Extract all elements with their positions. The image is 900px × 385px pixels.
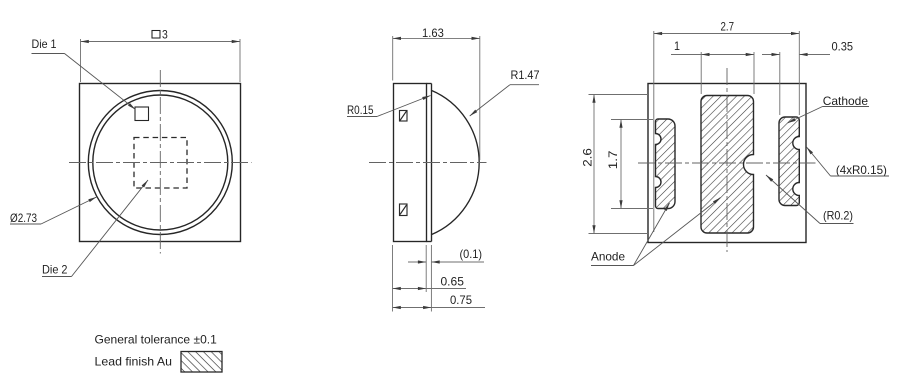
svg-text:0.35: 0.35 bbox=[832, 40, 854, 54]
svg-text:2.7: 2.7 bbox=[721, 20, 735, 34]
svg-text:2.6: 2.6 bbox=[581, 148, 595, 167]
svg-text:(R0.2): (R0.2) bbox=[823, 209, 853, 223]
svg-text:1.7: 1.7 bbox=[606, 150, 620, 169]
svg-text:Cathode: Cathode bbox=[823, 94, 869, 108]
svg-text:Die 2: Die 2 bbox=[42, 263, 68, 277]
svg-text:General tolerance ±0.1: General tolerance ±0.1 bbox=[95, 333, 218, 347]
svg-text:0.65: 0.65 bbox=[441, 275, 465, 289]
svg-text:1.63: 1.63 bbox=[422, 26, 444, 40]
svg-text:Die 1: Die 1 bbox=[32, 37, 57, 51]
svg-text:3: 3 bbox=[162, 28, 168, 42]
svg-text:Ø2.73: Ø2.73 bbox=[10, 211, 37, 225]
svg-text:Anode: Anode bbox=[591, 250, 625, 264]
svg-text:Lead finish Au: Lead finish Au bbox=[95, 355, 173, 369]
svg-text:(0.1): (0.1) bbox=[460, 247, 483, 261]
svg-text:R1.47: R1.47 bbox=[511, 68, 540, 82]
svg-text:R0.15: R0.15 bbox=[347, 103, 374, 117]
svg-text:1: 1 bbox=[674, 39, 680, 53]
svg-text:(4xR0.15): (4xR0.15) bbox=[836, 163, 887, 177]
svg-text:0.75: 0.75 bbox=[450, 293, 472, 307]
